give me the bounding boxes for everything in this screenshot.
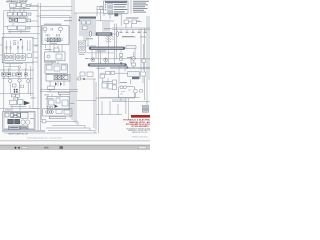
svg-text:www.heydownloads.com - manuals: www.heydownloads.com - manuals online — [27, 137, 62, 139]
svg-text:VERSION 975 226: VERSION 975 226 — [132, 132, 148, 134]
svg-text:PRICE 24.99 USD: PRICE 24.99 USD — [132, 136, 148, 138]
svg-text:SAUER DANFOSS 226: SAUER DANFOSS 226 — [8, 133, 28, 136]
